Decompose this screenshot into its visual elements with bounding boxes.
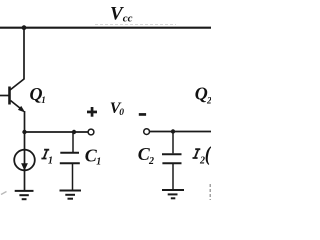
svg-text:(: ( <box>205 143 211 165</box>
svg-text:0: 0 <box>119 108 124 118</box>
svg-text:Q: Q <box>195 83 208 103</box>
svg-text:1: 1 <box>96 157 101 168</box>
svg-text:1: 1 <box>48 156 53 167</box>
svg-text:1: 1 <box>41 95 46 105</box>
svg-text:cc: cc <box>123 12 133 24</box>
svg-text:2: 2 <box>148 156 154 167</box>
svg-text:2: 2 <box>206 95 211 105</box>
